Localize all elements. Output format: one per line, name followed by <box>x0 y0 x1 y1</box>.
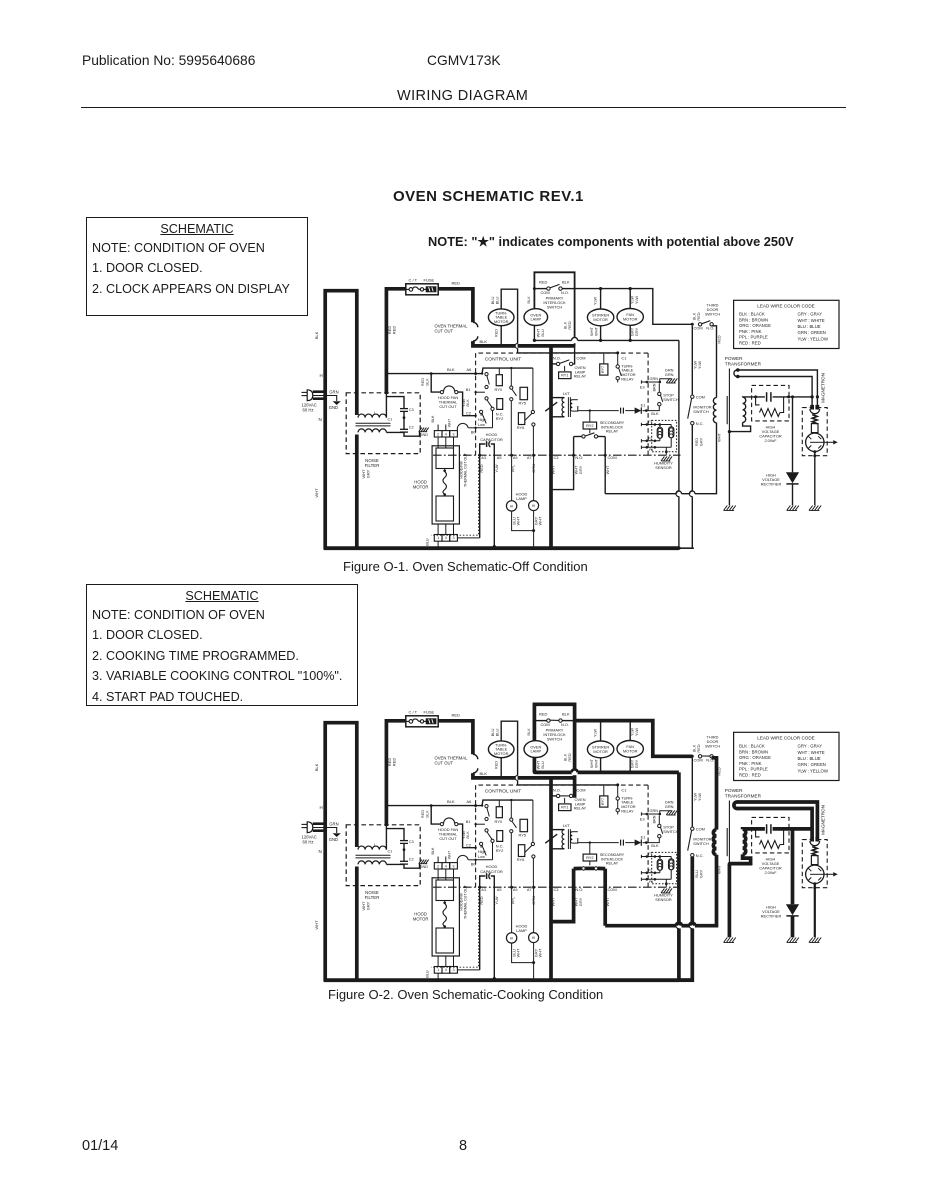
svg-text:N: N <box>319 849 322 854</box>
terminal A7 wire (hood lamp 2) <box>527 886 536 933</box>
humidity sensor element 1 <box>657 425 662 441</box>
svg-text:FILTER: FILTER <box>365 463 380 468</box>
svg-text:BLU: BLU <box>426 538 430 546</box>
footer: page number <box>459 1138 467 1154</box>
svg-text:LAMP: LAMP <box>530 317 541 322</box>
bus tail to monitor line <box>679 978 694 982</box>
svg-text:RED: RED <box>391 326 396 335</box>
svg-text:BLU: BLU <box>495 728 500 736</box>
wire WHT/BLU (oven lamp return) <box>533 757 545 774</box>
svg-text:RY0: RY0 <box>495 387 503 392</box>
svg-text:BLK: BLK <box>651 843 659 848</box>
terminal C2 / fan speed select <box>466 842 486 859</box>
svg-text:WHT: WHT <box>516 516 521 525</box>
svg-text:WHT : WHITE: WHT : WHITE <box>798 750 825 755</box>
HV capacitor feed wire <box>743 827 814 830</box>
svg-text:L: L <box>374 843 376 847</box>
svg-text:C3: C3 <box>409 840 414 844</box>
svg-text:GRY: GRY <box>634 327 639 336</box>
svg-text:WHT: WHT <box>594 758 599 767</box>
terminal N.O. (WHT/GRY return) <box>549 437 583 492</box>
svg-text:RED: RED <box>452 713 461 718</box>
svg-text:A5: A5 <box>497 456 502 460</box>
power transformer label <box>725 356 762 367</box>
svg-text:BLU : BLUE: BLU : BLUE <box>798 324 821 329</box>
power plug 120VAC <box>302 821 339 844</box>
wire WHT (COM to power transformer) <box>605 423 716 494</box>
magnetron antenna arrow <box>824 440 838 444</box>
wire (HV lead 2) <box>738 377 819 406</box>
wire RED (door switch to transformer primary) <box>712 326 722 398</box>
header rule <box>81 107 846 108</box>
bleed resistor <box>756 397 784 417</box>
wire (HV lead 2) <box>738 809 819 838</box>
svg-text:YLW: YLW <box>697 793 702 801</box>
svg-text:RED: RED <box>494 329 499 337</box>
svg-text:YLW: YLW <box>592 729 597 737</box>
capacitor C1 label <box>388 417 393 421</box>
svg-text:COM: COM <box>541 290 550 295</box>
svg-text:C2: C2 <box>409 426 414 430</box>
wire RED (fuse to thermal cutout) <box>438 713 473 755</box>
wire YLW (to monitor switch) <box>692 758 702 827</box>
svg-text:OVEN THERMAL: OVEN THERMAL <box>435 323 469 328</box>
hood fan thermal cut out <box>431 374 475 416</box>
svg-text:PPL : PURPLE: PPL : PURPLE <box>739 335 768 340</box>
svg-text:WHT: WHT <box>538 948 543 957</box>
terminal B0 wire <box>471 427 493 435</box>
svg-text:B0: B0 <box>471 429 477 434</box>
svg-text:RY2: RY2 <box>586 856 593 860</box>
terminal block 1-4-3 (lower) <box>426 956 480 980</box>
svg-text:LEAD WIRE COLOR CODE: LEAD WIRE COLOR CODE <box>757 735 814 740</box>
relay RY1 contacts <box>551 778 585 803</box>
motor common wire <box>534 769 679 774</box>
svg-text:BLK: BLK <box>447 367 455 372</box>
svg-text:YLW: YLW <box>494 464 499 472</box>
svg-text:BLK: BLK <box>526 728 531 736</box>
noise filter core <box>356 855 391 858</box>
low voltage transformer LVT <box>551 391 578 417</box>
svg-text:A3: A3 <box>481 456 486 460</box>
svg-text:C2: C2 <box>409 858 414 862</box>
svg-text:WHT: WHT <box>551 897 556 906</box>
capacitor C2 <box>400 858 414 865</box>
svg-text:RY5: RY5 <box>519 832 527 837</box>
relay RY5 <box>510 800 528 887</box>
noise filter choke (lower winding) <box>358 861 386 865</box>
hood motor rotated label <box>459 884 467 919</box>
turntable motor M1 <box>488 309 514 326</box>
fan motor M3 <box>617 741 643 758</box>
svg-text:SWITCH: SWITCH <box>547 304 563 309</box>
svg-text:1: 1 <box>437 968 439 972</box>
svg-text:POWER: POWER <box>725 788 743 793</box>
ground (stop switch) <box>666 378 677 383</box>
svg-text:N.O.: N.O. <box>561 290 569 295</box>
hood motor winding 1 <box>436 880 454 904</box>
hood motor rotated label <box>459 452 467 487</box>
relay RY7 coil (turn-table motor relay) <box>600 786 608 808</box>
svg-text:GND: GND <box>329 405 338 410</box>
svg-text:RED : RED: RED : RED <box>739 772 761 777</box>
svg-text:MOTOR: MOTOR <box>413 917 429 922</box>
svg-text:RY5: RY5 <box>519 400 527 405</box>
svg-text:C / T: C / T <box>409 709 418 714</box>
transformer primary winding <box>713 398 716 423</box>
high voltage capacitor enclosure <box>752 817 789 853</box>
svg-text:RED: RED <box>696 312 701 320</box>
hood lamp label <box>516 923 528 933</box>
lead wire color code table <box>734 300 839 348</box>
svg-text:BLK: BLK <box>431 415 435 423</box>
hood motor winding 1 <box>436 448 454 472</box>
svg-text:4: 4 <box>445 536 447 540</box>
humidity sensor terminal F3 <box>641 420 671 426</box>
noise filter choke L (upper winding) <box>358 411 386 417</box>
ground (plug GND) <box>333 833 341 837</box>
magnetron filament terminals <box>810 837 820 846</box>
svg-text:BLU: BLU <box>540 761 545 769</box>
svg-text:BRN : BROWN: BRN : BROWN <box>739 317 768 322</box>
svg-text:HI: HI <box>532 936 535 940</box>
ground (humidity sensor) <box>661 456 672 461</box>
svg-text:RELAY: RELAY <box>621 809 634 814</box>
hood motor enclosure <box>413 878 460 956</box>
transformer primary winding <box>713 830 716 855</box>
svg-text:COM.: COM. <box>608 455 618 460</box>
svg-text:CAPACITOR: CAPACITOR <box>480 437 503 442</box>
relay RY7 coil (turn-table motor relay) <box>600 354 608 376</box>
svg-text:LAMP: LAMP <box>516 928 527 933</box>
svg-text:BLK: BLK <box>424 378 429 386</box>
transformer lead curl <box>734 800 740 810</box>
magnetron enclosure <box>802 840 827 888</box>
svg-text:GND: GND <box>329 837 338 842</box>
svg-text:1: 1 <box>437 536 439 540</box>
ground (plug GND) <box>333 401 341 405</box>
wire RED (turntable motor return) <box>494 326 502 345</box>
svg-text:COM.: COM. <box>608 887 618 892</box>
svg-text:RY1: RY1 <box>561 806 568 810</box>
stirrer motor M2 <box>587 309 613 326</box>
svg-text:WHT: WHT <box>538 516 543 525</box>
hood lamp 1 <box>506 933 516 943</box>
hood lamp 1 <box>506 501 516 511</box>
monitor switch <box>688 394 712 426</box>
fuse F1 (C/T + FUSE) <box>406 709 438 726</box>
terminal COM. (WHT to transformer) <box>604 869 618 926</box>
terminal A3 <box>479 455 486 538</box>
svg-text:COM: COM <box>696 394 705 399</box>
relay RY1 contacts <box>551 346 585 371</box>
lead wire color code table <box>734 732 839 780</box>
svg-text:RY7: RY7 <box>601 366 605 373</box>
relay RY0 contacts <box>482 367 533 389</box>
svg-text:F2: F2 <box>648 868 652 872</box>
svg-text:COM: COM <box>576 356 585 361</box>
wire (core to chassis ground) <box>728 369 730 506</box>
ground (rectifier) <box>787 938 799 943</box>
svg-text:MOTOR: MOTOR <box>494 751 509 756</box>
svg-text:ORN: ORN <box>531 896 536 905</box>
wire BLK (interlock to third door switch) <box>575 287 694 326</box>
svg-text:2.00uF: 2.00uF <box>764 870 777 875</box>
humidity sensor terminal F2 <box>641 868 660 874</box>
svg-text:YLW: YLW <box>634 296 639 304</box>
hood lamp label <box>516 491 528 501</box>
svg-text:3: 3 <box>453 432 455 436</box>
control unit bottom boundary (dash-dot) <box>433 454 681 456</box>
terminal B1 <box>466 387 485 393</box>
svg-text:E3: E3 <box>640 817 645 822</box>
svg-text:YLW : YELLOW: YLW : YELLOW <box>798 768 829 773</box>
turntable motor M1 <box>488 741 514 758</box>
noise filter choke L (upper winding) <box>358 843 386 849</box>
svg-text:GND: GND <box>420 433 429 437</box>
wire (HV lead to magnetron filament) <box>738 370 818 405</box>
svg-text:B0: B0 <box>471 861 477 866</box>
stirrer motor M2 <box>587 741 613 758</box>
svg-text:GRN: GRN <box>329 389 338 394</box>
relay RY2 N.C. contacts <box>485 829 494 860</box>
svg-text:RY6: RY6 <box>517 857 525 862</box>
svg-text:PNK : PINK: PNK : PINK <box>739 761 762 766</box>
svg-text:RY2: RY2 <box>496 848 504 853</box>
noise filter core <box>356 423 391 426</box>
svg-text:LVT: LVT <box>563 391 571 396</box>
hood motor thermal protector (wavy) <box>443 472 447 496</box>
svg-text:SWITCH: SWITCH <box>547 736 563 741</box>
relay RY1 coil (oven lamp relay) <box>559 365 587 379</box>
magnetron filament coil <box>812 846 817 856</box>
power transformer label <box>725 788 762 799</box>
third door switch <box>692 735 721 763</box>
svg-text:N: N <box>319 417 322 422</box>
svg-text:GRY: GRY <box>365 469 370 478</box>
oven lamp <box>524 741 548 758</box>
svg-text:WHT: WHT <box>516 948 521 957</box>
relay RY7 contacts <box>616 353 636 383</box>
section title <box>393 188 584 205</box>
svg-text:C2: C2 <box>466 843 471 848</box>
svg-text:WHT: WHT <box>551 465 556 474</box>
figure caption 2 <box>328 987 603 1002</box>
svg-text:WHT: WHT <box>314 920 319 930</box>
svg-text:ORN: ORN <box>531 464 536 473</box>
svg-text:C1: C1 <box>621 787 626 792</box>
wire YLW (stirrer motor feed) <box>592 721 600 741</box>
terminal C2 / fan speed select <box>466 410 486 427</box>
svg-text:RED: RED <box>539 711 548 716</box>
svg-text:MOTOR: MOTOR <box>623 316 638 321</box>
svg-text:RELAY: RELAY <box>574 374 587 379</box>
svg-text:GRY: GRY <box>634 759 639 768</box>
wire (filter to capacitor stack) <box>386 826 419 868</box>
svg-text:N.O.: N.O. <box>561 722 569 727</box>
svg-text:BLK: BLK <box>431 847 435 855</box>
terminal COM. (WHT to transformer) <box>604 437 618 494</box>
svg-text:BRN: BRN <box>652 383 656 391</box>
svg-text:N.O.: N.O. <box>553 356 561 361</box>
wire GRY (fan return) <box>630 757 639 772</box>
HV capacitor feed wire <box>743 395 814 398</box>
wire YLW (fan motor feed) <box>630 289 639 309</box>
svg-text:LAMP: LAMP <box>530 749 541 754</box>
svg-text:THERMAL CUT OUT: THERMAL CUT OUT <box>464 884 468 919</box>
relay RY6 <box>517 368 535 455</box>
svg-text:3: 3 <box>453 864 455 868</box>
wire RED (fuse to thermal cutout) <box>438 281 473 323</box>
wire YLW (fan motor feed) <box>630 721 639 741</box>
fuse F1 (C/T + FUSE) <box>406 277 438 294</box>
svg-text:BLU: BLU <box>495 296 500 304</box>
hood fan thermal cut out <box>431 806 475 848</box>
power plug 120VAC <box>302 389 339 412</box>
svg-text:RECTIFIER: RECTIFIER <box>761 913 782 918</box>
svg-text:MOTOR: MOTOR <box>413 485 429 490</box>
hood lamp 2 <box>529 933 539 943</box>
relay RY2 coil (secondary interlock relay) <box>583 411 625 434</box>
svg-text:CUT OUT: CUT OUT <box>435 329 454 334</box>
noise filter choke (lower winding) <box>358 429 386 433</box>
svg-text:COM: COM <box>576 788 585 793</box>
svg-text:RY1: RY1 <box>561 374 568 378</box>
svg-text:FILTER: FILTER <box>365 895 380 900</box>
primary interlock switch contacts <box>526 711 575 761</box>
ground (noise filter GND) <box>419 860 429 869</box>
svg-text:RED: RED <box>452 281 461 286</box>
magnetron tube <box>806 433 824 451</box>
header: publication number <box>82 53 255 68</box>
svg-text:3: 3 <box>453 968 455 972</box>
svg-text:GRN: GRN <box>329 821 338 826</box>
svg-text:BLK: BLK <box>562 279 570 284</box>
relay RY2 N.C. coil <box>496 831 504 854</box>
svg-text:C3: C3 <box>554 887 559 892</box>
third door switch <box>692 303 721 331</box>
control unit enclosure <box>476 785 648 887</box>
main white/common vertical (thick) <box>549 344 552 549</box>
svg-text:RED: RED <box>567 753 572 761</box>
humidity sensor element 2 <box>669 425 674 448</box>
hood capacitor <box>478 864 503 980</box>
svg-text:60 Hz: 60 Hz <box>303 840 314 845</box>
svg-text:YLW: YLW <box>634 728 639 736</box>
wire BLU (turntable motor feed) <box>490 721 517 785</box>
svg-text:RY2: RY2 <box>496 416 504 421</box>
magnetron neck <box>811 856 818 865</box>
wire BLK (interlock to third door switch) <box>575 719 694 758</box>
terminal A9 wire (hood lamp 1) <box>510 454 517 501</box>
svg-text:A3: A3 <box>481 888 486 892</box>
wire (HV lead to magnetron filament) <box>738 802 818 837</box>
transformer core <box>726 828 728 856</box>
ground (transformer) <box>724 938 736 943</box>
supply bus bar (left tall loop) <box>314 723 370 981</box>
svg-text:RED: RED <box>567 321 572 329</box>
wire (hot feed to fuse) <box>386 721 406 826</box>
terminal A5 <box>494 456 502 473</box>
svg-text:PNK : PINK: PNK : PINK <box>739 329 762 334</box>
svg-text:CONTROL UNIT: CONTROL UNIT <box>485 356 522 362</box>
wire (monitor switch to bus) <box>679 425 703 548</box>
relay RY2 N.C. coil <box>496 399 504 422</box>
wire (core to chassis ground) <box>728 801 730 938</box>
svg-text:GRY : GRAY: GRY : GRAY <box>798 312 823 317</box>
svg-text:GRY: GRY <box>578 897 583 906</box>
svg-text:POWER: POWER <box>725 356 743 361</box>
svg-text:N.O.: N.O. <box>575 887 583 892</box>
svg-text:2: 2 <box>437 864 439 868</box>
relay RY5 <box>510 368 528 455</box>
ground (magnetron) <box>809 938 821 943</box>
svg-text:GRN: GRN <box>665 804 674 809</box>
hood unit dotted boundary <box>431 889 479 967</box>
bus tail to monitor line <box>679 547 694 549</box>
svg-text:BLK : BLACK: BLK : BLACK <box>739 744 765 749</box>
svg-text:CUT OUT: CUT OUT <box>439 404 457 409</box>
svg-text:MOTOR: MOTOR <box>494 319 509 324</box>
ground (noise filter GND) <box>419 428 429 437</box>
fan motor M3 <box>617 309 643 326</box>
control unit enclosure <box>476 353 648 455</box>
magnetron antenna arrow <box>824 872 838 876</box>
ground (transformer) <box>724 506 736 511</box>
svg-text:GRY: GRY <box>365 901 370 910</box>
wire YLW (stirrer motor feed) <box>592 289 600 309</box>
svg-text:PPL : PURPLE: PPL : PURPLE <box>739 767 768 772</box>
svg-text:High: High <box>478 850 486 854</box>
humidity sensor terminal F2 <box>641 436 660 442</box>
relay RY7 contacts <box>616 785 636 815</box>
svg-text:BRN : BROWN: BRN : BROWN <box>739 749 768 754</box>
svg-text:GRN: GRN <box>650 377 659 381</box>
svg-text:F2: F2 <box>648 436 652 440</box>
schematic note box 1 <box>86 217 308 316</box>
svg-text:LEAD WIRE COLOR CODE: LEAD WIRE COLOR CODE <box>757 303 814 308</box>
svg-text:WHT: WHT <box>448 418 452 427</box>
svg-text:3: 3 <box>453 536 455 540</box>
svg-text:PPL: PPL <box>510 464 515 472</box>
relay RY0 coil <box>495 807 503 824</box>
transformer secondary return hook <box>716 854 750 874</box>
wire E1 row with capacitor and diode D1 <box>578 403 646 414</box>
svg-text:RY2: RY2 <box>586 424 593 428</box>
hood lamp return wires <box>511 943 542 982</box>
svg-text:BLK: BLK <box>480 339 488 344</box>
wire (hot feed to fuse) <box>386 289 406 394</box>
wire (monitor switch to bus) <box>679 857 703 980</box>
svg-text:WHT: WHT <box>314 488 319 498</box>
bottom supply bus (thick) <box>324 547 679 550</box>
svg-text:RY7: RY7 <box>601 798 605 805</box>
svg-text:RED: RED <box>716 767 721 775</box>
svg-text:60 Hz: 60 Hz <box>303 408 314 413</box>
humidity sensor terminal F1 <box>641 878 671 887</box>
svg-text:MOTOR: MOTOR <box>593 749 608 754</box>
relay RY1 coil (oven lamp relay) <box>559 797 587 811</box>
svg-text:RED : RED: RED : RED <box>739 340 761 345</box>
wire WHT (COM to power transformer) <box>605 855 716 926</box>
svg-text:C3: C3 <box>554 455 559 460</box>
svg-text:ORG : ORANGE: ORG : ORANGE <box>739 323 771 328</box>
primary interlock switch enclosure <box>534 272 574 346</box>
svg-text:RY0: RY0 <box>495 819 503 824</box>
humidity sensor enclosure <box>652 852 677 902</box>
high voltage rectifier <box>761 397 799 505</box>
magnetron label <box>820 373 825 403</box>
